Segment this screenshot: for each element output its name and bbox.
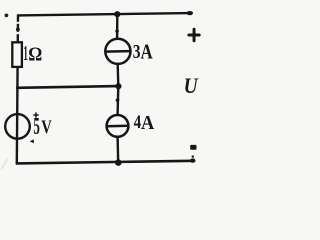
node: stray terminal dot top-left <box>5 14 9 18</box>
svg-text:A: A <box>141 112 155 134</box>
svg-text:1: 1 <box>23 41 28 65</box>
current source 3A circle <box>105 39 130 64</box>
svg-text:V: V <box>41 117 52 138</box>
speck on wire above 4A <box>116 98 120 102</box>
polarity mark below 5V label <box>30 139 34 143</box>
voltage source 5V circle <box>5 114 30 139</box>
ink blob on left wire <box>16 28 20 32</box>
junction dot: middle node <box>115 83 121 89</box>
svg-text:U: U <box>184 73 199 98</box>
svg-text:Ω: Ω <box>28 43 42 65</box>
svg-text:A: A <box>141 40 154 64</box>
resistor R=1Ω <box>12 42 22 67</box>
wire: bottom rail from left corner to - terminal <box>17 161 193 164</box>
svg-text:3: 3 <box>133 41 141 63</box>
terminal dot: top right (+) <box>187 11 193 15</box>
current source 4A bar <box>107 124 129 127</box>
junction dot: top node <box>114 11 120 17</box>
wire: stub middle node to 4A source <box>116 86 119 114</box>
wire: top rail from left corner to + terminal <box>18 13 190 15</box>
print gaps on left wire above resistor <box>16 22 21 24</box>
speck above bottom-right terminal <box>192 155 194 157</box>
wire: stub top node to 3A source <box>116 14 119 38</box>
current source 3A bar <box>105 50 130 53</box>
wire: left branch vertical <box>17 15 18 163</box>
label: + terminal sign <box>189 29 199 41</box>
polarity + mark above 5V label <box>34 113 38 117</box>
wire: middle link from left branch to centre branch <box>17 86 118 88</box>
wire: stub 4A source to bottom node <box>116 138 119 163</box>
svg-text:5: 5 <box>33 114 40 140</box>
wire: stub 3A source to middle node <box>116 64 119 86</box>
label - terminal sign <box>190 145 196 150</box>
current source 4A circle <box>107 115 129 137</box>
terminal dot: bottom right (-) <box>190 158 196 162</box>
faint scan streak bottom-left <box>2 160 8 170</box>
junction dot: bottom node <box>115 159 122 166</box>
speck on wire above 3A <box>115 29 119 33</box>
